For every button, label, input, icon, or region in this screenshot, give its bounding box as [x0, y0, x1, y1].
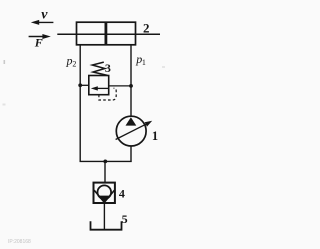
svg-text:2: 2 — [143, 21, 150, 36]
tank (5) — [91, 221, 122, 229]
svg-text:1: 1 — [142, 58, 146, 67]
check valve ball — [98, 185, 112, 199]
check valve seat fill — [98, 196, 110, 203]
node: right junction dot — [129, 84, 133, 88]
svg-text:1: 1 — [152, 129, 158, 143]
wire: drop to check valve — [104, 161, 106, 182]
wire: right port line p1 down to pump — [130, 45, 132, 117]
svg-text:2: 2 — [72, 60, 76, 69]
node: bottom junction dot — [103, 160, 107, 164]
svg-text:5: 5 — [122, 212, 128, 226]
wire: valve right connector — [109, 85, 131, 87]
wire: suction line to tank — [103, 203, 105, 230]
wire: pump bottom down — [130, 146, 132, 161]
wire: bottom horizontal return line — [80, 160, 132, 162]
force arrow F — [29, 34, 51, 39]
pump variable arrow — [116, 121, 153, 140]
svg-text:IP:208168: IP:208168 — [8, 239, 31, 245]
pump P (1) circle — [116, 116, 146, 146]
check valve (4) body — [94, 183, 115, 203]
pilot line (dashed) — [99, 88, 116, 100]
wire: left port line p2 down — [79, 45, 81, 162]
scan smudges — [4, 60, 6, 64]
svg-text:v: v — [41, 8, 48, 23]
svg-text:F: F — [34, 35, 43, 49]
piston rod (through-rod) — [57, 33, 160, 35]
svg-text:4: 4 — [119, 186, 125, 200]
relief valve internal flow arrow — [91, 86, 108, 90]
pump output triangle — [126, 117, 137, 125]
cylinder C body (2) — [77, 22, 136, 45]
piston — [105, 23, 108, 45]
velocity arrow v — [31, 20, 54, 25]
relief valve V (3) body — [89, 76, 109, 95]
svg-text:3: 3 — [105, 61, 111, 75]
wire: valve left connector — [80, 84, 89, 86]
relief valve spring — [92, 62, 107, 75]
check valve seat — [94, 190, 114, 202]
node: left junction dot — [78, 83, 82, 87]
